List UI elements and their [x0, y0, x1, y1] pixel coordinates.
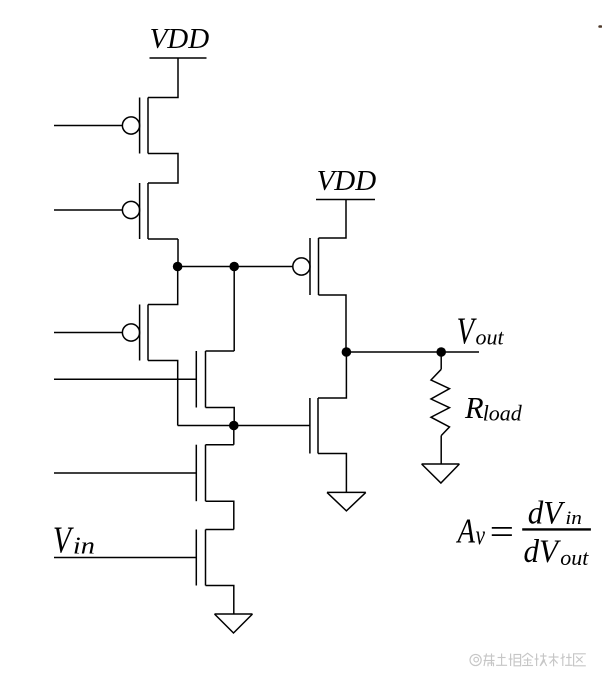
- wire M1 source to M2 drain: [148, 154, 178, 184]
- junction dot output right (R_load top): [436, 347, 446, 357]
- wire node A row (to M3 gate bubble): [178, 266, 293, 268]
- transistor M2 (PMOS second left): [54, 183, 148, 239]
- svg-text:dV: dV: [524, 532, 562, 569]
- ground (below R_load): [422, 464, 460, 483]
- svg-text:R: R: [464, 391, 484, 425]
- wire VDD to M3 drain: [319, 200, 347, 239]
- svg-text:VDD: VDD: [150, 23, 210, 55]
- transistor M4 (PMOS third left): [54, 267, 178, 426]
- resistor R_load: [431, 352, 450, 464]
- junction dot node A left: [173, 262, 183, 272]
- power VDD bar (left): [150, 57, 207, 59]
- wire node B row (bottom, to M6 gate): [178, 425, 310, 427]
- artifact dash top right: [598, 25, 602, 28]
- transistor M5 (NMOS middle): [54, 351, 234, 426]
- svg-text:in: in: [73, 532, 95, 559]
- power VDD bar (right): [316, 199, 375, 201]
- wire node B down to M7 drain: [233, 426, 235, 445]
- svg-text:V: V: [457, 311, 477, 353]
- watermark "@稀土掘金技术社区" drawn as gray glyph shapes: [470, 653, 586, 666]
- svg-text:V: V: [53, 520, 75, 561]
- ground (below M8): [215, 614, 253, 633]
- svg-text:A: A: [456, 511, 476, 550]
- svg-text:=: =: [487, 512, 516, 552]
- svg-text:VDD: VDD: [317, 165, 377, 197]
- junction dot node A right: [229, 262, 239, 272]
- transistor M7 (NMOS, below node B): [54, 445, 234, 530]
- svg-text:v: v: [476, 520, 486, 550]
- wire M2 source down to node A: [148, 238, 178, 240]
- svg-text:out: out: [476, 324, 505, 349]
- svg-text:out: out: [560, 545, 589, 570]
- svg-text:in: in: [565, 508, 582, 529]
- junction dot node B: [229, 421, 239, 431]
- wire M3 source down to output node: [319, 295, 347, 352]
- fraction bar: [522, 528, 591, 530]
- svg-text:dV: dV: [528, 493, 566, 530]
- transistor M1 (PMOS top left): [54, 98, 148, 154]
- svg-text:load: load: [483, 400, 523, 425]
- wire VDD to M1 drain: [148, 58, 178, 98]
- ground (below M6): [327, 492, 366, 511]
- transistor M8 (NMOS input, V_in): [54, 530, 234, 615]
- wire output row V_out: [346, 351, 479, 353]
- transistor M6 (NMOS right, below output): [310, 352, 347, 492]
- equation A_v = dV_in / dV_out: [456, 493, 589, 570]
- transistor M3 (PMOS right): [293, 238, 319, 295]
- junction dot output left: [342, 347, 352, 357]
- wire node A down to M5 drain: [233, 267, 235, 352]
